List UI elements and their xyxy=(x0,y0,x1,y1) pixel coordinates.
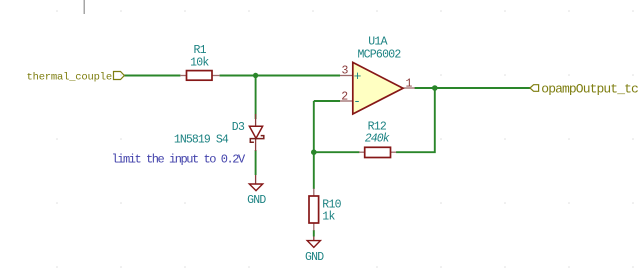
svg-text:1N5819 S4: 1N5819 S4 xyxy=(174,133,229,146)
ground under R10 xyxy=(307,237,320,248)
svg-text:1k: 1k xyxy=(322,211,335,224)
wire: R1 to op-amp pin 3 xyxy=(220,75,341,77)
svg-text:GND: GND xyxy=(305,251,324,264)
resistor R1 xyxy=(180,71,220,81)
svg-text:MCP6002: MCP6002 xyxy=(357,48,401,61)
wire: R12 right to feedback right vertical xyxy=(396,88,435,152)
global label thermal_couple xyxy=(27,71,125,83)
svg-text:1: 1 xyxy=(406,78,413,91)
global label opampOutput_tc xyxy=(530,81,638,96)
wire: op-amp output to opampOutput_tc label xyxy=(415,87,531,89)
svg-text:thermal_couple: thermal_couple xyxy=(27,71,112,83)
node B junction dot xyxy=(311,149,317,155)
node A junction dot xyxy=(253,73,258,78)
node C junction dot (output) xyxy=(432,85,438,91)
svg-text:+: + xyxy=(354,69,362,84)
wire: op-amp pin 2 horizontal xyxy=(314,100,340,102)
svg-text:240k: 240k xyxy=(365,132,390,145)
svg-text:U1A: U1A xyxy=(368,35,387,48)
svg-text:R1: R1 xyxy=(193,44,206,57)
wire: thermal_couple to R1 xyxy=(124,75,181,77)
wire: node A down to diode D3 xyxy=(255,76,257,120)
svg-text:limit the input to 0.2V: limit the input to 0.2V xyxy=(112,153,247,167)
svg-text:10k: 10k xyxy=(190,56,209,69)
resistor R10 xyxy=(309,189,319,231)
svg-text:GND: GND xyxy=(247,194,266,207)
resistor R12 xyxy=(359,147,396,157)
wire: node B to R12 left xyxy=(314,151,360,153)
svg-text:R10: R10 xyxy=(322,199,341,212)
svg-text:3: 3 xyxy=(342,64,349,77)
wire: diode D3 to GND xyxy=(255,150,257,175)
svg-text:opampOutput_tc: opampOutput_tc xyxy=(541,81,638,96)
wire: feedback left vertical xyxy=(313,101,315,152)
diode D3 (Schottky) xyxy=(249,114,263,151)
op-amp U1A xyxy=(340,62,415,114)
svg-text:2: 2 xyxy=(341,90,348,103)
wire: node B down to R10 xyxy=(313,152,315,189)
svg-text:-: - xyxy=(353,94,361,109)
stray gray line top xyxy=(83,0,85,14)
svg-text:D3: D3 xyxy=(232,121,245,134)
wire: R10 to GND xyxy=(313,230,315,237)
ground under D3 xyxy=(249,175,262,191)
